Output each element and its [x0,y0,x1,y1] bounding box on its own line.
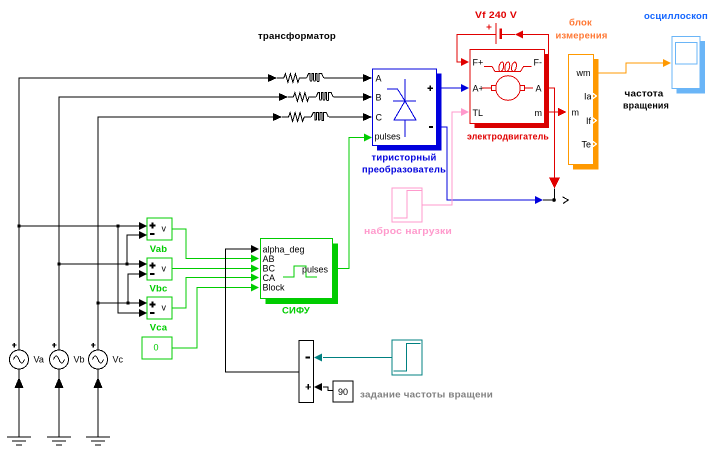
wire motor F- to battery - (red) [523,35,549,59]
AC source Va [10,350,29,369]
wire to thyristor A [324,77,364,79]
svg-text:v: v [162,224,167,234]
svg-text:СИФУ: СИФУ [282,306,310,317]
transformer branch C arrow [273,113,282,121]
measurement block shadow [573,59,599,170]
DC motor M1 body [470,50,545,124]
SIFU control block [261,239,333,299]
wire phase A to Vab+ [19,225,140,227]
svg-text:Vca: Vca [150,323,168,334]
unconnected line end chevron [563,197,569,204]
wire phase C up to Vbc- [128,274,140,303]
svg-text:If: If [586,116,592,126]
svg-text:преобразователь: преобразователь [362,165,446,176]
wire phase A down to Vca- [118,226,140,313]
wire wm to oscilloscope (orange) [594,63,664,73]
wire Vc to ground [97,370,99,438]
M1 armature symbol [496,76,521,101]
wire constant 0 to SIFU Block (green) [172,288,252,349]
svg-text:90: 90 [338,387,348,397]
voltage measurement Vab [147,218,172,240]
svg-text:Va: Va [34,355,44,365]
M1 field winding symbol [484,67,532,72]
svg-text:Ia: Ia [584,92,592,102]
svg-text:Vc: Vc [113,355,124,365]
svg-text:C: C [376,113,383,123]
node junction J1 [543,199,556,201]
svg-text:wm: wm [576,68,591,78]
output port chevron Ia [592,92,597,99]
wire Vca out to SIFU CA (green) [172,278,252,309]
svg-text:Block: Block [263,283,286,293]
U1 pin + [428,86,434,92]
wire load step to motor TL (pink) [422,112,462,205]
wire Vb to ground [58,370,60,438]
node junction Vab- tap [125,262,128,265]
inductor Lc [311,113,328,121]
svg-text:AB: AB [263,254,275,264]
svg-text:Vb: Vb [74,355,85,365]
ground Vc [86,436,110,438]
wire phase B to Vbc+ [59,263,140,265]
svg-text:alpha_deg: alpha_deg [263,245,305,255]
node junction phase A to Vab+ [17,224,20,227]
AC source Vb [50,350,69,369]
svg-text:измерения: измерения [556,31,608,42]
svg-text:трансформатор: трансформатор [258,31,336,42]
svg-text:A: A [536,84,542,94]
voltage measurement Vca [147,297,172,319]
oscilloscope block [672,37,700,89]
thyristor converter U1 shadow [377,74,442,151]
thyristor symbol inside U1 [387,79,416,137]
wire 90 to sum + (black) [323,387,333,391]
svg-text:электродвигатель: электродвигатель [467,132,549,143]
svg-text:BC: BC [263,264,276,274]
svg-text:Vbc: Vbc [149,284,167,295]
measurement block блок измерения [569,55,594,165]
inductor La [307,74,324,82]
wire phase B up to Vab- [127,235,140,264]
wire Vab out to SIFU AB (green) [172,229,252,259]
svg-text:вращения: вращения [623,101,669,112]
wire motor m to measurement block (red) [545,111,559,113]
wire phase A bus (vertical + top horizontal to transformer) [19,78,270,351]
constant block 90 [333,381,353,402]
svg-text:m: m [572,108,580,118]
pulse symbol inside SIFU [283,266,317,277]
voltage measurement Vbc [147,258,172,280]
svg-text:pulses: pulses [375,132,402,142]
svg-text:0: 0 [153,343,158,353]
svg-text:блок: блок [569,18,592,29]
oscilloscope shadow [677,41,706,94]
wire phase C to Vca+ [98,302,140,304]
sum block S1 [299,341,314,403]
svg-text:F-: F- [534,58,543,68]
node junction Vca- tap [116,224,119,227]
load step block наброс нагрузки [392,188,422,222]
svg-text:Vf 240 V: Vf 240 V [475,10,517,21]
DC motor M1 shadow [475,54,550,128]
speed reference step block [392,340,422,375]
svg-text:m: m [535,108,543,118]
svg-text:pulses: pulses [302,265,329,275]
svg-text:наброс нагрузки: наброс нагрузки [364,226,452,237]
node junction phase B to Vbc+ [57,262,60,265]
wire SIFU pulses to U1 pulses (green) [333,138,365,269]
battery Vf symbol [496,23,501,44]
wire Vbc out to SIFU BC (green) [172,268,252,270]
wire Va to ground [18,370,20,438]
svg-text:v: v [162,264,167,274]
svg-text:v: v [162,303,167,313]
node junction Vbc- tap [126,301,129,304]
U1 pin - [429,126,433,128]
transformer branch A arrow [268,74,277,82]
svg-text:частота: частота [625,89,665,100]
thyristor converter U1 body [373,69,437,146]
ground Va [7,436,31,438]
transformer branch B arrow [279,93,288,101]
svg-text:TL: TL [473,108,484,118]
output port chevron If [592,117,597,124]
wire sum output to SIFU alpha_deg (black) [226,249,300,372]
wire U1 + to motor A+ (blue) [438,87,462,89]
wire step to sum - (teal) [323,357,392,359]
wire motor A- down to junction (red) [545,88,555,178]
wire U1 - to junction (blue) [438,127,536,200]
svg-text:A: A [376,74,382,84]
SIFU block shadow [266,244,339,305]
wire phase B bus [59,97,280,351]
constant block 0 [142,337,172,359]
resistor Ra [277,74,307,83]
svg-text:Vab: Vab [150,244,168,255]
inductor Lb [316,93,333,101]
svg-text:B: B [376,93,382,103]
wire to thyristor B [334,96,365,98]
AC source Vc [89,350,108,369]
svg-text:тиристорный: тиристорный [372,153,437,164]
svg-text:CA: CA [263,273,276,283]
svg-text:задание частоты вращени: задание частоты вращени [360,390,493,401]
resistor Rc [282,113,311,122]
wire phase C bus [98,117,274,351]
oscilloscope screen [676,43,698,65]
output port chevron Te [592,140,597,147]
ground Vb [47,436,71,438]
battery + sign [487,25,492,30]
wire battery + to motor F+ (red) [457,35,496,63]
resistor Rb [288,93,316,102]
svg-text:F+: F+ [473,58,484,68]
wire to thyristor C [329,116,364,118]
svg-text:осциллоскоп: осциллоскоп [644,11,708,22]
node junction phase C to Vca+ [96,301,99,304]
svg-text:Te: Te [581,140,591,150]
